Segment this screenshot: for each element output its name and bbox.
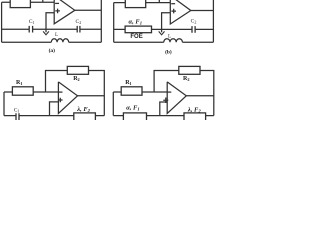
svg-text:R2: R2 — [73, 76, 80, 82]
svg-text:C1: C1 — [29, 19, 35, 25]
svg-text:FOE: FOE — [130, 34, 142, 40]
svg-text:L: L — [55, 32, 58, 38]
svg-text:R1: R1 — [125, 80, 132, 86]
svg-text:R2: R2 — [183, 76, 190, 82]
svg-text:(b): (b) — [165, 48, 172, 55]
svg-text:R1: R1 — [16, 80, 23, 86]
svg-text:λ, F2: λ, F2 — [187, 106, 201, 113]
svg-text:(a): (a) — [49, 47, 55, 54]
svg-text:C1: C1 — [14, 107, 20, 113]
svg-text:λ, F2: λ, F2 — [76, 106, 90, 113]
svg-text:L: L — [168, 33, 171, 39]
svg-text:C2: C2 — [76, 19, 82, 25]
svg-text:α, F1: α, F1 — [126, 105, 139, 112]
svg-text:C2: C2 — [191, 19, 197, 25]
svg-text:α, F1: α, F1 — [129, 18, 142, 25]
